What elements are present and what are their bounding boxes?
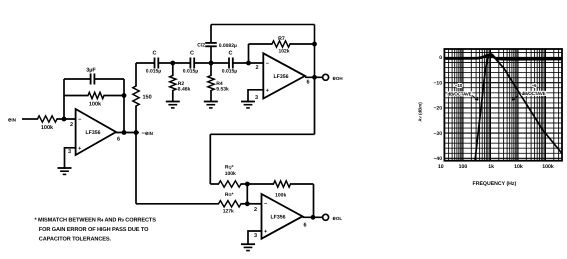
node ladder R2 (170, 61, 175, 66)
op-amp U3 LF356 (262, 194, 303, 239)
wire U1 pin3 to ground (65, 148, 76, 168)
ground U2 pin3 (241, 101, 255, 103)
svg-text:100k: 100k (41, 125, 54, 131)
svg-text:−: − (266, 61, 269, 67)
svg-text:+: + (264, 229, 267, 235)
svg-text:* MISMATCH BETWEEN R4 AND R9 C: * MISMATCH BETWEEN R4 AND R9 CORRECTS (35, 218, 157, 224)
wire top rail right vertical (314, 25, 316, 78)
svg-text:−: − (264, 202, 267, 208)
svg-text:C: C (153, 51, 157, 57)
wire coupling down vertical (209, 134, 211, 184)
svg-text:FOR GAIN ERROR OF HIGH PASS DU: FOR GAIN ERROR OF HIGH PASS DUE TO (39, 227, 149, 233)
svg-text:3µF: 3µF (86, 68, 96, 74)
svg-text:2: 2 (254, 207, 257, 213)
svg-text:100k: 100k (225, 171, 236, 177)
resistor RQ* 100k (219, 181, 242, 187)
svg-text:R7: R7 (278, 36, 285, 42)
capacitor C1 0.015u (154, 58, 156, 69)
wire bottom rail to 127k (136, 203, 219, 205)
svg-text:3: 3 (255, 95, 258, 101)
curve bandpass rising edge (475, 55, 490, 161)
ground R4 (204, 101, 218, 103)
svg-text:1k: 1k (488, 164, 494, 170)
node feedback junction (122, 93, 127, 98)
node U2 output (312, 75, 317, 80)
wire input to R1 (22, 118, 38, 120)
resistor U3 feedback 100k (274, 181, 291, 187)
resistor R4 9.53k vertical (210, 63, 212, 76)
graph grid vertical log lines (449, 49, 559, 161)
wire top rail (211, 24, 315, 26)
svg-text:100k: 100k (542, 164, 554, 170)
svg-text:6: 6 (117, 137, 120, 143)
svg-text:102k: 102k (278, 49, 289, 55)
wire ladder rail seg1 (136, 62, 155, 64)
wire ladder seg2 (158, 62, 190, 64)
svg-text:−10: −10 (455, 83, 463, 88)
svg-text:LF356: LF356 (271, 215, 286, 221)
svg-text:9.53k: 9.53k (216, 87, 229, 93)
wire 150 bottom (135, 106, 137, 133)
op-amp U1 LF356 (76, 109, 116, 155)
svg-text:0.015µ: 0.015µ (222, 69, 238, 75)
wire fb 100k rail left (247, 183, 273, 185)
wire RQ to node (241, 183, 247, 185)
wire 3uF top rail left (64, 78, 91, 80)
curve bandpass falling edge (490, 54, 563, 153)
resistor 150 (133, 86, 139, 106)
curve flat response (444, 55, 562, 59)
node input junction (62, 117, 67, 122)
wire coupling horizontal (210, 133, 314, 135)
svg-text:−20: −20 (434, 106, 443, 112)
svg-text:0: 0 (439, 55, 442, 61)
wire R7 left vertical (248, 44, 250, 63)
wire node to U3 pin2 (247, 203, 261, 205)
svg-text:−: − (78, 117, 81, 123)
svg-text:0.0082µ: 0.0082µ (219, 43, 237, 49)
svg-text:8.46k: 8.46k (178, 87, 191, 93)
resistor RG* 127k (219, 201, 242, 207)
svg-text:−10: −10 (434, 81, 443, 87)
wire 150 top (135, 63, 137, 86)
svg-text:C: C (229, 51, 233, 57)
resistor feedback 100k U1 (88, 92, 104, 98)
ground R2 (166, 101, 180, 103)
graph frame (444, 49, 562, 161)
svg-text:C: C (190, 51, 194, 57)
capacitor C/2 0.0082u (205, 42, 217, 44)
resistor R1 100k input (38, 116, 58, 122)
wire 3uF top rail right (94, 78, 124, 80)
svg-text:100k: 100k (275, 193, 286, 199)
svg-text:0.015µ: 0.015µ (146, 69, 162, 75)
svg-text:+: + (78, 146, 81, 152)
ground U1 pin3 (58, 167, 72, 169)
wire U1 output down vertical (135, 133, 137, 204)
svg-text:2: 2 (70, 122, 73, 128)
svg-text:6: 6 (303, 223, 306, 229)
node U3 output (311, 215, 316, 220)
wire R1 to U1 pin2 (57, 118, 76, 120)
arrow right label (512, 96, 518, 101)
wire C2half lead upper (210, 25, 212, 43)
svg-text:10: 10 (438, 164, 444, 170)
svg-text:2: 2 (255, 65, 258, 71)
svg-text:dB/OCTAVE: dB/OCTAVE (447, 91, 471, 96)
wire to RQ resistor (210, 183, 218, 185)
svg-text:10k: 10k (514, 164, 523, 170)
wire feedback left vertical (63, 79, 65, 119)
wire R7 rail right (290, 43, 315, 45)
wire 100k feedback rail (64, 95, 88, 97)
wire U1 output (116, 132, 139, 134)
resistor R7 102k (272, 41, 290, 47)
svg-text:127k: 127k (223, 209, 234, 215)
node ladder R7 tap (246, 61, 251, 66)
wire ladder seg4 to U2 pin2 (233, 62, 263, 64)
svg-text:3: 3 (68, 149, 71, 155)
svg-text:CAPACITOR TOLERANCES.: CAPACITOR TOLERANCES. (39, 237, 112, 243)
op-amp U2 LF356 (263, 53, 305, 98)
wire C2half lead lower (210, 46, 212, 63)
svg-text:3: 3 (254, 233, 257, 239)
svg-text:100: 100 (459, 164, 468, 170)
svg-text:dB/OCTAVE: dB/OCTAVE (521, 91, 545, 96)
node 127k junction (245, 201, 250, 206)
svg-text:0.015µ: 0.015µ (183, 69, 199, 75)
svg-text:150: 150 (143, 95, 152, 101)
wire U3 pin3 to ground (248, 231, 262, 244)
svg-text:100k: 100k (89, 102, 102, 108)
node R7 junction (312, 42, 317, 47)
svg-text:−6: −6 (531, 83, 537, 88)
wire R7 rail left (249, 43, 273, 45)
wire feedback right vertical (123, 79, 125, 133)
wire U2 output (305, 76, 323, 78)
graph grid minor horizontal (444, 53, 562, 159)
terminal eOL (323, 214, 329, 220)
svg-text:LF356: LF356 (274, 74, 289, 80)
wire fb rail right (291, 183, 314, 185)
wire eOH down vertical (314, 77, 316, 134)
svg-text:+: + (266, 88, 269, 94)
capacitor C3 0.015u (228, 58, 230, 69)
node ladder C2-R4 (209, 61, 214, 66)
capacitor C2 0.015u (189, 58, 191, 69)
svg-text:−40: −40 (434, 156, 443, 162)
wire RQ node down (246, 184, 248, 204)
wire fb right vertical (313, 184, 315, 217)
wire U3 output (303, 216, 323, 218)
capacitor C 3uF (90, 74, 92, 85)
node U1 output down (134, 130, 139, 135)
svg-text:−30: −30 (434, 131, 443, 137)
svg-text:C/2: C/2 (197, 42, 205, 48)
arrow left label (472, 96, 478, 101)
wire U2 pin3 to ground (248, 90, 263, 102)
ground U3 pin3 (241, 243, 255, 245)
terminal eOH (323, 74, 329, 80)
svg-text:AV (dBm): AV (dBm) (418, 102, 423, 122)
svg-text:FREQUENCY (Hz): FREQUENCY (Hz) (473, 181, 517, 187)
node U1 output fb (122, 130, 127, 135)
svg-text:LF356: LF356 (86, 130, 101, 136)
svg-text:6: 6 (306, 80, 309, 86)
node RQ junction (245, 182, 250, 187)
resistor R2 8.46k vertical (172, 63, 174, 76)
wire ladder seg3 (194, 62, 229, 64)
